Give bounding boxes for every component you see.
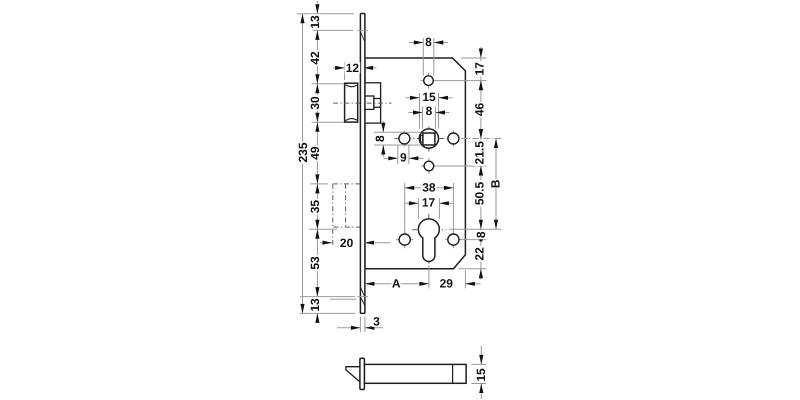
svg-text:21.5: 21.5 — [473, 141, 487, 165]
dim 9 hole — [397, 145, 399, 165]
svg-text:13: 13 — [308, 298, 322, 312]
ext line cylinder right — [450, 228, 502, 230]
ext line top screw — [313, 29, 353, 31]
dim 12 latch projection — [344, 62, 346, 80]
dim 8 follower square — [422, 107, 424, 129]
svg-text:8: 8 — [373, 135, 387, 142]
faceplate — [360, 14, 365, 314]
cylinder centerlines — [428, 214, 430, 265]
dim 49 — [315, 122, 319, 132]
svg-text:A: A — [392, 277, 401, 291]
svg-text:9: 9 — [400, 150, 407, 164]
ext line bottom of faceplate — [300, 312, 355, 314]
hole right of spindle — [452, 130, 454, 146]
dim 42 — [315, 74, 319, 84]
dim 38 side holes — [404, 183, 406, 233]
svg-text:20: 20 — [340, 236, 354, 250]
deadbolt dashed outline — [332, 184, 334, 247]
ext line top hole right — [436, 80, 487, 82]
svg-text:46: 46 — [473, 103, 487, 117]
svg-text:50.5: 50.5 — [473, 181, 487, 205]
dim 30 — [315, 84, 319, 94]
dim 8 follower height — [374, 131, 420, 133]
svg-text:17: 17 — [422, 196, 436, 210]
faceplate screw bottom — [358, 296, 369, 298]
side view latch wedge — [346, 367, 361, 381]
svg-text:35: 35 — [308, 200, 322, 214]
euro cylinder hole — [418, 219, 439, 262]
ext line case bottom right — [459, 268, 487, 270]
hole left of cylinder — [396, 239, 413, 241]
ext tick cylinder CL — [309, 228, 337, 230]
dim 13 top — [315, 4, 319, 14]
dim 22 — [479, 269, 483, 279]
dim 8 right — [479, 238, 482, 241]
svg-text:49: 49 — [308, 146, 322, 160]
dim 46 — [479, 81, 483, 91]
svg-text:13: 13 — [308, 15, 322, 29]
hole right of cylinder — [445, 239, 462, 241]
svg-text:38: 38 — [422, 181, 436, 195]
ext line case top right — [461, 57, 487, 59]
ext line latch top — [312, 83, 345, 85]
dim 35 — [315, 184, 319, 194]
spindle centerlines — [395, 138, 464, 140]
svg-text:B: B — [489, 179, 503, 188]
svg-text:15: 15 — [422, 90, 436, 104]
svg-text:12: 12 — [346, 61, 360, 75]
faceplate screw top — [358, 29, 369, 31]
dim 15 follower circle — [419, 93, 421, 129]
right chain dim line — [480, 47, 482, 280]
dim 17 cylinder — [417, 198, 419, 219]
dim 13 bottom — [315, 313, 319, 323]
ext line top of faceplate — [297, 13, 354, 15]
svg-text:3: 3 — [373, 315, 380, 329]
svg-text:22: 22 — [473, 247, 487, 261]
chain dim line — [316, 1, 318, 323]
latch centerline — [333, 102, 392, 104]
spindle follower — [419, 129, 438, 148]
ext line side hole right — [461, 239, 487, 241]
dim 15 side view — [472, 363, 487, 365]
hole left of spindle — [403, 130, 405, 146]
latch bolt head — [345, 83, 358, 122]
dim 20 deadbolt — [320, 242, 332, 244]
svg-text:8: 8 — [425, 35, 432, 49]
lock case body — [365, 58, 466, 269]
dim 3 faceplate thickness — [337, 327, 360, 329]
side view case — [364, 364, 466, 383]
latch housing — [365, 83, 381, 123]
ext line bottom screw — [300, 296, 355, 298]
hole below spindle — [421, 165, 437, 167]
svg-text:8: 8 — [474, 231, 488, 238]
dim B — [495, 139, 497, 230]
svg-text:17: 17 — [473, 62, 487, 76]
dim 17 right — [479, 49, 483, 59]
side view faceplate — [360, 358, 365, 389]
svg-text:30: 30 — [308, 96, 322, 110]
svg-text:8: 8 — [426, 104, 433, 118]
svg-text:42: 42 — [308, 51, 322, 65]
dim 235 — [302, 14, 304, 314]
dim 21.5 — [479, 129, 483, 139]
ext line latch bottom — [312, 121, 345, 123]
dim 8 top hole — [422, 38, 424, 76]
dim 53 — [315, 229, 319, 239]
ext line below-spindle hole right — [436, 165, 487, 167]
hole top — [421, 80, 437, 82]
svg-text:15: 15 — [474, 368, 488, 382]
ext tick deadbolt top — [310, 183, 328, 185]
dim 29 — [464, 270, 466, 288]
svg-text:29: 29 — [440, 277, 454, 291]
ext line spindle right — [461, 138, 502, 140]
svg-text:53: 53 — [308, 256, 322, 270]
dim A backset — [428, 265, 430, 288]
dim 50.5 — [479, 166, 483, 176]
